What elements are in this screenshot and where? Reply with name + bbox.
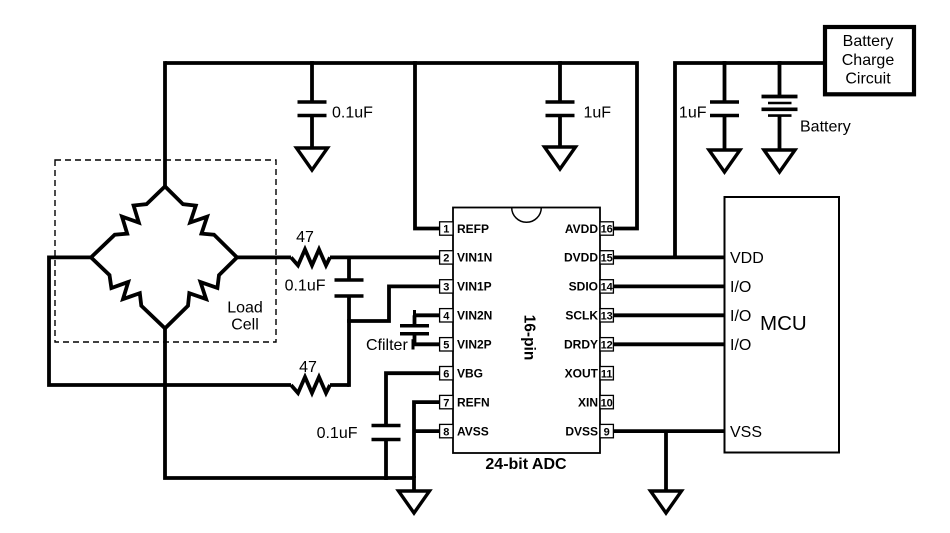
wire pin 5 lead: [413, 342, 440, 346]
svg-text:11: 11: [601, 368, 613, 380]
svg-text:I/O: I/O: [730, 308, 751, 325]
capacitor C2 1uF (left): [546, 61, 575, 147]
svg-text:Cfilter: Cfilter: [366, 337, 408, 354]
svg-text:9: 9: [604, 426, 610, 438]
wire pin 7 REFN lead: [414, 402, 440, 478]
svg-text:I/O: I/O: [730, 279, 751, 296]
wire VIN1P node to pin 3: [347, 286, 440, 321]
bridge resistor bottom-left arm: [91, 257, 165, 328]
svg-text:24-bit ADC: 24-bit ADC: [485, 456, 567, 473]
capacitor C4 0.1uF (input filter): [335, 257, 364, 387]
svg-text:Load: Load: [227, 300, 263, 317]
wire bridge excitation- to bottom rail: [165, 326, 414, 478]
svg-text:MCU: MCU: [760, 312, 807, 335]
svg-text:1uF: 1uF: [679, 105, 707, 122]
svg-text:16-pin: 16-pin: [520, 315, 537, 361]
svg-text:AVDD: AVDD: [565, 222, 598, 236]
U1 pin 5 VIN2P: [440, 338, 492, 352]
ground below C2: [545, 147, 576, 169]
U1 pin 9 DVSS: [565, 424, 613, 438]
wire right rail (battery/DVDD): [675, 63, 824, 257]
U1 pin 2 VIN1N: [440, 251, 493, 265]
U1 notch: [512, 208, 542, 223]
svg-text:XIN: XIN: [578, 395, 598, 409]
svg-text:0.1uF: 0.1uF: [317, 425, 358, 442]
svg-text:VIN1N: VIN1N: [457, 251, 492, 265]
U1 pin 8 AVSS: [440, 424, 489, 438]
load cell dashed outline: [55, 160, 276, 342]
ground digital: [651, 491, 682, 513]
ground below C3: [709, 150, 740, 172]
bridge resistor top-left arm: [91, 186, 165, 257]
wire DVSS pin9 to MCU VSS: [613, 429, 724, 433]
svg-text:VDD: VDD: [730, 250, 764, 267]
svg-text:16: 16: [601, 224, 613, 236]
svg-text:0.1uF: 0.1uF: [285, 277, 326, 294]
label Load Cell: [227, 300, 263, 334]
bridge resistor top-right arm: [165, 186, 237, 257]
svg-text:VSS: VSS: [730, 424, 762, 441]
wire DRDY pin12 to MCU: [613, 342, 724, 346]
svg-text:Battery: Battery: [800, 119, 851, 136]
U1 pin 15 DVDD: [564, 251, 613, 265]
capacitor C6 0.1uF (VBG): [372, 426, 401, 481]
svg-text:Cell: Cell: [231, 317, 259, 334]
svg-text:DRDY: DRDY: [564, 338, 598, 352]
wire digital ground drop: [664, 431, 668, 491]
wire bottom rail ground drop: [412, 476, 416, 491]
wire R1 to VIN1N pin 2: [330, 255, 440, 259]
svg-text:SDIO: SDIO: [569, 280, 598, 294]
wire pin 6 VBG lead: [386, 373, 440, 425]
wire bridge right vertex to R1: [237, 255, 291, 259]
svg-text:VIN1P: VIN1P: [457, 280, 492, 294]
svg-text:6: 6: [443, 368, 449, 380]
bridge resistor bottom-right arm: [165, 257, 237, 328]
wire pin 8 AVSS lead: [414, 429, 440, 433]
svg-text:DVSS: DVSS: [565, 424, 598, 438]
svg-text:4: 4: [443, 311, 450, 323]
capacitor C1 0.1uF (AVDD decoupling): [298, 61, 327, 148]
svg-text:3: 3: [443, 282, 449, 294]
svg-text:10: 10: [601, 397, 613, 409]
resistor R1 47 (upper): [291, 249, 330, 265]
svg-text:REFP: REFP: [457, 222, 489, 236]
wire R2 to VIN1P node: [330, 383, 349, 387]
U1 pin 10 XIN: [578, 395, 613, 409]
wire bridge excitation+ vertical: [163, 61, 167, 188]
wire DVDD pin15 to MCU VDD: [613, 255, 724, 259]
svg-text:DVDD: DVDD: [564, 251, 598, 265]
wire SCLK pin13 to MCU: [613, 313, 724, 317]
U1 pin 4 VIN2N: [440, 309, 493, 323]
U1 pin 13 SCLK: [565, 309, 613, 323]
svg-text:0.1uF: 0.1uF: [332, 105, 373, 122]
ground below battery: [764, 150, 795, 172]
svg-text:8: 8: [443, 426, 449, 438]
wire SDIO pin14 to MCU: [613, 284, 724, 288]
svg-text:XOUT: XOUT: [565, 367, 599, 381]
svg-text:I/O: I/O: [730, 337, 751, 354]
svg-text:1uF: 1uF: [584, 105, 612, 122]
label MCU pins: [730, 250, 764, 441]
svg-text:AVSS: AVSS: [457, 424, 489, 438]
capacitor C5 Cfilter: [400, 310, 429, 350]
svg-text:REFN: REFN: [457, 395, 490, 409]
U1 pin 3 VIN1P: [440, 280, 492, 294]
op-amp U1 24-bit ADC body: [453, 208, 600, 454]
U1 pin 16 AVDD: [565, 222, 614, 236]
svg-text:7: 7: [443, 397, 449, 409]
svg-text:5: 5: [443, 340, 449, 352]
U1 pin 6 VBG: [440, 367, 483, 381]
svg-text:15: 15: [601, 253, 613, 265]
battery charge circuit block: [825, 27, 914, 94]
wire bridge left vertex to lower rail: [49, 257, 291, 385]
svg-text:VIN2P: VIN2P: [457, 338, 492, 352]
wire pin 4 lead: [413, 313, 440, 317]
svg-text:Battery: Battery: [843, 33, 894, 50]
label Battery Charge Circuit: [842, 33, 895, 88]
U1 pin 12 DRDY: [564, 338, 613, 352]
svg-text:SCLK: SCLK: [565, 309, 598, 323]
ground below C1: [297, 148, 328, 170]
svg-text:47: 47: [299, 359, 317, 376]
wire REFP branch: [415, 61, 440, 228]
resistor R2 47 (lower): [291, 377, 330, 393]
wire top rail left (AVDD rail): [165, 63, 637, 229]
svg-text:12: 12: [601, 340, 613, 352]
U1 pin 14 SDIO: [569, 280, 614, 294]
svg-text:13: 13: [601, 311, 613, 323]
svg-text:VIN2N: VIN2N: [457, 309, 492, 323]
U1 pin 11 XOUT: [565, 367, 614, 381]
svg-text:VBG: VBG: [457, 367, 483, 381]
transistor U2 MCU box: [725, 197, 840, 453]
svg-text:Circuit: Circuit: [845, 71, 891, 88]
ground analog (bottom): [399, 491, 430, 513]
svg-text:2: 2: [443, 253, 449, 265]
svg-text:Charge: Charge: [842, 52, 895, 69]
svg-text:14: 14: [601, 282, 614, 294]
battery BT1: [762, 61, 798, 150]
svg-text:47: 47: [296, 229, 314, 246]
svg-text:1: 1: [443, 224, 449, 236]
capacitor C3 1uF (right): [710, 61, 739, 150]
U1 pin 7 REFN: [440, 395, 490, 409]
U1 pin 1 REFP: [440, 222, 489, 236]
